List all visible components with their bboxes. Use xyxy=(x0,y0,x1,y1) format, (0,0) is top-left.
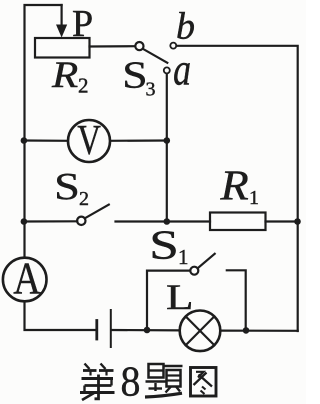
battery plate short (negative) xyxy=(95,321,98,340)
caption hanzi DI (first) xyxy=(80,364,115,401)
lamp cross stroke 1 xyxy=(186,317,214,346)
wire from b along top right and down right side xyxy=(177,46,298,331)
wire from contact a down to middle node xyxy=(166,74,168,222)
battery plate long (positive) xyxy=(110,310,112,347)
wire S2 contact to R1 xyxy=(116,220,211,222)
wire S1 branch left riser xyxy=(147,271,190,330)
ammeter A circle xyxy=(3,258,47,302)
wire left vertical + top horizontal xyxy=(25,5,62,258)
voltmeter V circle xyxy=(68,120,110,162)
svg-text:3: 3 xyxy=(146,79,156,101)
wire voltmeter right xyxy=(110,139,167,142)
svg-text:a: a xyxy=(173,43,191,94)
svg-text:R: R xyxy=(51,54,78,96)
switch S3 pivot xyxy=(135,42,143,50)
lamp L circle xyxy=(180,311,221,352)
junction node lamp-right xyxy=(243,327,250,334)
wiper arrowhead P xyxy=(56,25,67,38)
junction node V-left xyxy=(21,137,28,144)
junction node lamp-left xyxy=(144,327,151,334)
node contact a xyxy=(164,67,170,73)
wire middle row: left wire to S2 pivot xyxy=(25,220,78,222)
wire S1 contact and right riser xyxy=(227,270,246,330)
wire voltmeter left xyxy=(25,139,69,142)
svg-text:L: L xyxy=(166,277,193,317)
node contact b xyxy=(170,43,176,49)
svg-text:R: R xyxy=(219,162,248,209)
svg-text:2: 2 xyxy=(79,188,89,210)
svg-text:1: 1 xyxy=(249,187,259,209)
switch S3 lever xyxy=(143,49,167,63)
svg-text:8: 8 xyxy=(121,357,141,404)
svg-text:S: S xyxy=(149,223,179,268)
svg-text:b: b xyxy=(176,5,195,47)
svg-text:P: P xyxy=(72,3,93,45)
switch S2 lever xyxy=(85,205,109,219)
caption hanzi TI (problem) xyxy=(145,364,183,397)
junction node middle xyxy=(164,218,171,225)
svg-text:A: A xyxy=(13,253,41,304)
wire left lower (ammeter to bottom corner) xyxy=(25,302,96,331)
junction node R1-right xyxy=(294,218,301,225)
wire wiper drop xyxy=(60,5,62,25)
junction node V-right xyxy=(164,137,171,144)
wire battery to lamp xyxy=(112,329,180,332)
resistor R2 (rheostat body) xyxy=(35,38,90,58)
svg-text:1: 1 xyxy=(178,245,189,269)
svg-text:S: S xyxy=(54,166,80,208)
lamp cross stroke 2 xyxy=(186,317,214,346)
switch S1 lever xyxy=(198,254,215,268)
caption hanzi TU (figure) xyxy=(191,368,217,397)
junction node S2-left xyxy=(21,218,28,225)
switch S1 pivot xyxy=(190,267,198,275)
switch S2 pivot xyxy=(77,217,85,225)
svg-text:2: 2 xyxy=(78,74,89,98)
wire lamp to bottom right corner xyxy=(220,330,297,332)
wire R2 to S3 pivot xyxy=(90,45,136,47)
svg-text:V: V xyxy=(77,117,101,164)
wire R1 to right wire xyxy=(266,220,298,222)
resistor R1 body xyxy=(210,213,266,231)
svg-text:S: S xyxy=(122,55,147,97)
